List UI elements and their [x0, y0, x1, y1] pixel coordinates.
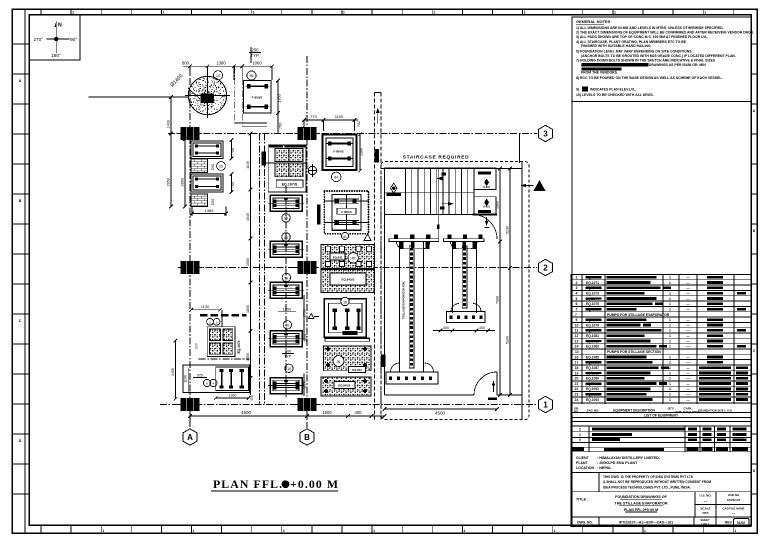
svg-text:1360: 1360: [229, 394, 237, 398]
svg-text:REV.: REV.: [725, 521, 733, 525]
dim 1350 right of F-1: [277, 81, 279, 114]
svg-text:& SHALL NOT BE REPRODUCED WITH: & SHALL NOT BE REPRODUCED WITHOUT WRITTE…: [603, 480, 711, 484]
svg-text:THE STILLAGE EVAPORATOR: THE STILLAGE EVAPORATOR: [614, 502, 667, 506]
svg-text:PUMPS FOR STILLAGE EVAPORATOR: PUMPS FOR STILLAGE EVAPORATOR: [607, 313, 670, 317]
room dim 1900 5230: [499, 169, 501, 396]
equipment table footer header row: [571, 403, 751, 405]
svg-text:1: 1: [669, 318, 671, 322]
svg-text:: HIMALAYAN DISTILLERY LIMITED: : HIMALAYAN DISTILLERY LIMITED.: [597, 456, 660, 460]
V1 base: [386, 372, 438, 384]
svg-text:EQ.1079: EQ.1079: [586, 323, 599, 327]
svg-text:+0.00 M: +0.00 M: [290, 477, 339, 491]
svg-text:1: 1: [669, 377, 671, 381]
svg-text:1: 1: [669, 345, 671, 349]
svg-text:CLIENT: CLIENT: [576, 456, 590, 460]
revision table: [571, 417, 751, 452]
brick pad D52 upper: [191, 159, 208, 173]
svg-text:7: 7: [575, 313, 577, 317]
flow arrow up: [377, 108, 379, 124]
svg-text:1: 1: [734, 529, 736, 533]
stair left landing: [385, 168, 406, 215]
tag bubble 96: [247, 71, 256, 80]
svg-text:1: 1: [543, 400, 548, 409]
upper pipe rack heavy dashed label: [200, 314, 246, 316]
svg-text:1: 1: [669, 355, 671, 359]
svg-text:17: 17: [575, 361, 579, 365]
svg-text:1: 1: [463, 529, 465, 533]
dim 750 right of LA-1: [231, 140, 233, 159]
stair mid landing line: [385, 192, 475, 194]
grid bubble A: [183, 429, 197, 445]
svg-text:D52: D52: [211, 199, 215, 205]
svg-text:IPT/23/107—A1—EVP—CAD—101: IPT/23/107—A1—EVP—CAD—101: [619, 520, 673, 524]
svg-text:20: 20: [286, 324, 290, 328]
svg-text:CAPA.: CAPA.: [683, 407, 692, 411]
trench label box lower: [381, 355, 385, 368]
svg-text:29: 29: [219, 165, 223, 169]
svg-text:NTS: NTS: [703, 511, 709, 515]
svg-text:EQ.1085: EQ.1085: [586, 355, 599, 359]
door bottom-right swing: [474, 372, 497, 395]
svg-text:1: 1: [253, 11, 255, 15]
svg-text:84: 84: [334, 176, 338, 180]
svg-text:1: 1: [669, 398, 671, 402]
svg-text:07/23/107: 07/23/107: [727, 498, 741, 502]
stair right box S2: [474, 197, 496, 215]
svg-text:1: 1: [343, 11, 345, 15]
pump column centerline: [285, 186, 287, 398]
svg-text:3: 3: [576, 286, 578, 290]
svg-text:: NEPAL: : NEPAL: [597, 466, 612, 470]
dim 1360: [216, 397, 249, 399]
svg-text:1: 1: [102, 529, 104, 533]
top dimension line: [183, 65, 272, 67]
svg-text:1: 1: [669, 393, 671, 397]
tag bubble 99: [282, 233, 290, 241]
svg-text:INDICATES PLAN ELEV.LVL.: INDICATES PLAN ELEV.LVL.: [590, 88, 636, 92]
svg-text:22: 22: [575, 387, 579, 391]
client box: [571, 452, 751, 473]
svg-text:EQ.844: EQ.844: [352, 368, 362, 372]
svg-text:180°: 180°: [51, 53, 61, 59]
tank extra stipple: [189, 78, 226, 112]
svg-text:2: 2: [576, 281, 578, 285]
room dashed boundary: [381, 162, 529, 420]
svg-text:1: 1: [524, 11, 526, 15]
svg-text:95: 95: [284, 217, 288, 221]
grid line 3: [168, 133, 537, 135]
svg-text:400: 400: [355, 410, 363, 415]
svg-text:16: 16: [575, 355, 579, 359]
foundation R2 scalloped: [324, 191, 368, 234]
svg-text:FINISHED WITH SUITABLE HAND RA: FINISHED WITH SUITABLE HAND RAILING.: [581, 44, 652, 48]
svg-text:5230: 5230: [506, 226, 510, 234]
svg-text:1: 1: [704, 11, 706, 15]
door top-right swing: [473, 215, 498, 240]
warning triangle right of room: [534, 180, 546, 191]
grid bubble B: [300, 429, 314, 445]
svg-text:2) THE EXACT DIMENSIONS OF EQU: 2) THE EXACT DIMENSIONS OF EQUIPMENT WIL…: [576, 31, 754, 35]
svg-text:9): 9): [576, 88, 579, 92]
svg-text:702: 702: [357, 121, 361, 127]
svg-text:6: 6: [576, 302, 578, 306]
svg-text:01/02: 01/02: [737, 521, 745, 525]
stair treads: [411, 168, 413, 215]
svg-text:3) ALL PADS SHOWN ARE TOP OF C: 3) ALL PADS SHOWN ARE TOP OF CONC.M.S. 1…: [576, 35, 708, 39]
tag bubble 18: [341, 297, 349, 305]
svg-text:B: B: [19, 199, 22, 203]
svg-text:(ANCHOR BOLTS TO BE GROUTED WI: (ANCHOR BOLTS TO BE GROUTED WITH M25 GRA…: [581, 54, 736, 58]
column marker A2: [181, 261, 200, 274]
foundation R5 thick: [324, 299, 366, 338]
svg-text:2710: 2710: [303, 309, 307, 317]
svg-text:24: 24: [575, 398, 579, 402]
pipe path from top: [234, 66, 236, 123]
svg-text:: 200KLPD ENA PLANT: : 200KLPD ENA PLANT: [597, 461, 638, 465]
svg-text:GENERAL NOTES: GENERAL NOTES: [576, 19, 611, 24]
border ruler ticks bottom: [40, 525, 42, 533]
svg-text:1600: 1600: [322, 410, 332, 415]
stair arrows: [437, 177, 444, 179]
stair right box S1: [474, 168, 496, 190]
svg-text:EQ.107/S: EQ.107/S: [282, 183, 298, 187]
svg-text:EQ.1091: EQ.1091: [586, 387, 599, 391]
svg-text:1: 1: [669, 297, 671, 301]
svg-text:EQUIPMENT DESCRIPTION: EQUIPMENT DESCRIPTION: [613, 409, 655, 413]
warning triangle left of R5: [309, 314, 314, 319]
label bar left of R2: [317, 205, 321, 225]
svg-text:270°: 270°: [34, 37, 44, 42]
svg-text:1: 1: [669, 307, 671, 311]
dim 750 right of LA-2: [231, 174, 233, 192]
svg-text:U.S. NO.: U.S. NO.: [699, 493, 711, 497]
tag bubble 20: [283, 321, 291, 329]
svg-text:1: 1: [193, 529, 195, 533]
svg-text:2860: 2860: [181, 178, 185, 186]
svg-text:750: 750: [231, 148, 235, 154]
lower-left foundation outer: [183, 365, 250, 393]
svg-text:10: 10: [287, 367, 291, 371]
door arrow top: [486, 217, 488, 226]
warning triangle near R2: [364, 234, 371, 241]
svg-text:1: 1: [162, 11, 164, 15]
svg-text:1: 1: [373, 529, 375, 533]
foundation F-1 bolts: [247, 84, 250, 88]
svg-text:1380: 1380: [216, 61, 226, 66]
svg-text:800: 800: [182, 61, 190, 66]
svg-text:EQ.1073: EQ.1073: [586, 291, 599, 295]
svg-text:1: 1: [554, 529, 556, 533]
dim line 770 1100: [304, 119, 358, 121]
svg-text:SCALE: SCALE: [700, 506, 710, 510]
svg-text:1130: 1130: [201, 304, 210, 309]
svg-text:FOUNDATION SIZE L X B: FOUNDATION SIZE L X B: [698, 409, 731, 413]
svg-text:EQ.1071: EQ.1071: [586, 281, 599, 285]
column marker A3: [181, 127, 200, 140]
equipment EQ stippled R3: [321, 245, 375, 269]
dim 2950: [170, 134, 172, 207]
svg-text:1100: 1100: [335, 114, 344, 119]
grid line 1: [160, 404, 537, 406]
svg-text:IDEA PROCESS TECHNOLOGIES PVT.: IDEA PROCESS TECHNOLOGIES PVT. LTD., PUN…: [603, 486, 691, 490]
svg-text:2: 2: [543, 263, 548, 272]
title box: [571, 492, 751, 517]
svg-text:550: 550: [250, 395, 254, 401]
svg-text:A: A: [19, 79, 22, 83]
evaporator foundation V1 top cap: [389, 239, 439, 242]
svg-text:FOUNDATION DRAWINGS OF: FOUNDATION DRAWINGS OF: [615, 495, 668, 499]
trench label box upper: [262, 152, 267, 166]
tank black pad: [201, 94, 215, 104]
svg-text:19: 19: [575, 371, 579, 375]
svg-text:4: 4: [576, 291, 578, 295]
svg-text:1: 1: [669, 366, 671, 370]
svg-text:PUMPS FOR STILLAGE SECTION: PUMPS FOR STILLAGE SECTION: [607, 350, 661, 354]
pump foundation P3: [270, 282, 302, 298]
foundation LA-2: [191, 174, 223, 192]
svg-text:91: 91: [285, 276, 289, 280]
svg-text:PLAN FFL.0+0.00 M: PLAN FFL.0+0.00 M: [624, 508, 658, 512]
svg-text:EQ.1075: EQ.1075: [586, 302, 599, 306]
svg-text:1100: 1100: [184, 375, 188, 383]
svg-text:D: D: [19, 439, 22, 443]
svg-text:(SIZE IN Kg/LITRES): (SIZE IN Kg/LITRES): [676, 410, 701, 414]
tag bubble below R2: [341, 232, 348, 239]
svg-text:STILLAGE EVAPORATOR FDN.: STILLAGE EVAPORATOR FDN.: [402, 281, 406, 319]
svg-text:1400: 1400: [246, 353, 250, 361]
room wall left: [384, 169, 386, 396]
tag bubble 91: [282, 273, 290, 281]
svg-text:3: 3: [543, 129, 548, 138]
tag bubble 29: [217, 162, 226, 171]
svg-text:400: 400: [479, 326, 485, 330]
grid bubble 3: [538, 125, 552, 141]
svg-text:10) LEVELS TO BE CHECKED WITH: 10) LEVELS TO BE CHECKED WITH ALL DRGS.: [576, 93, 654, 97]
equipment list table frame: [571, 275, 751, 418]
sheet binding line: [24, 9, 26, 533]
svg-text:1: 1: [433, 11, 435, 15]
svg-text:200: 200: [285, 350, 291, 354]
svg-text:JOB NO: JOB NO: [728, 493, 740, 497]
property note box: [571, 472, 751, 491]
svg-text:1380: 1380: [360, 148, 364, 156]
svg-text:LOCATION: LOCATION: [576, 466, 594, 470]
svg-text:F-805/S: F-805/S: [341, 210, 351, 214]
general notes box: [572, 17, 751, 102]
svg-text:1: 1: [579, 433, 581, 437]
svg-text:1500: 1500: [246, 258, 250, 266]
svg-text:1: 1: [669, 339, 671, 343]
svg-text:1: 1: [614, 11, 616, 15]
svg-text:EQ.842: EQ.842: [333, 255, 343, 259]
border ruler ticks top: [40, 9, 42, 15]
svg-text:1: 1: [669, 334, 671, 338]
svg-text:4500: 4500: [435, 411, 446, 416]
svg-text:EQ.845/S: EQ.845/S: [338, 384, 350, 388]
svg-text:EQ.843/S: EQ.843/S: [341, 278, 354, 282]
dim 1400 left: [170, 97, 172, 134]
trench line right: [264, 134, 266, 405]
grid line A: [189, 66, 191, 428]
svg-text:12: 12: [575, 334, 579, 338]
foundation F-1 outline: [244, 81, 271, 114]
svg-text:0: 0: [579, 438, 581, 442]
svg-text:1200: 1200: [283, 308, 291, 312]
equipment stippled R7: [321, 377, 371, 396]
svg-text:F-804/S: F-804/S: [333, 150, 343, 154]
svg-text:1) ALL DIMENSIONS ARE IN MM AN: 1) ALL DIMENSIONS ARE IN MM AND LEVELS I…: [576, 26, 724, 30]
tag bubble 14: [213, 71, 222, 80]
V1 center hatch: [409, 246, 414, 368]
svg-text:S-801: S-801: [483, 205, 490, 209]
svg-text:18: 18: [575, 366, 579, 370]
svg-text:925: 925: [197, 373, 203, 377]
svg-text:FROM THE VENDORS.: FROM THE VENDORS.: [581, 70, 618, 74]
svg-text:TYP.: TYP.: [284, 355, 292, 359]
svg-text:90°: 90°: [70, 37, 77, 43]
dim 1100 rotated: [187, 368, 189, 394]
trench label box: [375, 149, 380, 163]
svg-text:LIST OF EQUIPMENT: LIST OF EQUIPMENT: [644, 413, 679, 417]
room walls top: [382, 168, 523, 170]
svg-text:A: A: [187, 433, 193, 442]
tag bubble 10: [285, 364, 293, 372]
svg-text:1: 1: [669, 302, 671, 306]
svg-text:1060: 1060: [252, 61, 262, 66]
foundation R1 thick: [323, 135, 357, 171]
svg-text:14: 14: [575, 345, 579, 349]
svg-text:250: 250: [252, 48, 260, 53]
leader line from 1130: [221, 310, 223, 327]
svg-text:4500: 4500: [241, 410, 252, 415]
door arrow bottom: [493, 381, 495, 392]
svg-text:770: 770: [310, 114, 317, 119]
V1 body: [399, 242, 401, 373]
svg-text:96: 96: [250, 74, 254, 78]
V2 dims 400 400: [433, 330, 495, 332]
equipment table column lines: [581, 275, 583, 404]
room wall bottom: [385, 394, 475, 396]
svg-text:14: 14: [216, 74, 220, 78]
svg-text:D52: D52: [211, 164, 215, 170]
svg-text:1: 1: [669, 281, 671, 285]
svg-text:5) FOUNDATION LEVEL MAY VARY D: 5) FOUNDATION LEVEL MAY VARY DEPENDING O…: [576, 49, 693, 53]
grid line B: [306, 56, 308, 428]
svg-text:750: 750: [279, 123, 283, 129]
svg-text:1400: 1400: [167, 120, 171, 128]
svg-text:2950: 2950: [167, 178, 171, 186]
svg-text:21: 21: [575, 382, 579, 386]
svg-text:10: 10: [575, 323, 579, 327]
svg-text:STAIRCASE REQUIRED: STAIRCASE REQUIRED: [403, 155, 470, 161]
vertical dim chain x250: [250, 134, 252, 396]
grid bubble 2: [538, 259, 552, 275]
svg-text:EQ.1081: EQ.1081: [586, 334, 599, 338]
svg-text:7) HOLDING DOWN BOLTS SHOWN IN: 7) HOLDING DOWN BOLTS SHOWN IN THE SKETC…: [576, 58, 716, 62]
list of equipment bar: [571, 412, 751, 414]
svg-text:1800: 1800: [246, 305, 250, 313]
svg-text:1: 1: [669, 361, 671, 365]
bottom dimension line: [190, 415, 385, 417]
tag bubble 95: [282, 214, 290, 222]
svg-text:1: 1: [576, 276, 578, 280]
svg-text:1: 1: [283, 529, 285, 533]
pump foundation P5: [270, 378, 302, 394]
tag bubbles pair lower: [203, 379, 210, 386]
grid line 2: [182, 267, 537, 269]
foundation LA-1: [191, 141, 223, 159]
pump foundation P4: [270, 331, 302, 347]
svg-text:TAG NO.: TAG NO.: [587, 409, 600, 413]
north arrow box: [29, 15, 80, 61]
lower-left inner rect: [216, 367, 249, 390]
svg-text:1: 1: [669, 371, 671, 375]
svg-text:EQ.1083: EQ.1083: [586, 345, 599, 349]
equipment stippled R6: [324, 346, 371, 371]
pump foundation P1: [270, 195, 302, 211]
svg-text:1: 1: [669, 329, 671, 333]
svg-text:TYP.: TYP.: [251, 53, 260, 58]
svg-text:1: 1: [72, 11, 74, 15]
staircase outline: [406, 168, 475, 215]
column marker A1: [181, 398, 200, 411]
svg-text:1: 1: [669, 286, 671, 290]
svg-text:18: 18: [343, 300, 347, 304]
dwg number row: [571, 517, 751, 527]
centerline between groups: [199, 358, 250, 360]
stair bottom line: [385, 214, 473, 216]
equipment table rows: [571, 279, 751, 281]
V2 body: [452, 242, 454, 314]
svg-text:61: 61: [343, 235, 347, 239]
eq group 2x2 quadrant block: [207, 327, 235, 357]
svg-text:36: 36: [337, 360, 341, 364]
column marker B1: [298, 398, 317, 411]
svg-text:C: C: [19, 319, 22, 323]
svg-text:9: 9: [576, 318, 578, 322]
svg-text:N: N: [58, 23, 62, 29]
north arrow cross: [47, 38, 70, 40]
svg-text:EQ.1087: EQ.1087: [586, 366, 599, 370]
R5 base bar: [325, 337, 370, 339]
svg-text:S-801: S-801: [483, 185, 490, 189]
svg-text:B: B: [304, 433, 310, 442]
svg-text:14: 14: [575, 350, 579, 354]
border ruler ticks left: [12, 43, 29, 45]
evaporator foundation V2 top cap: [443, 239, 484, 242]
svg-text:EQ.1089: EQ.1089: [586, 377, 599, 381]
room wall right: [521, 162, 523, 420]
V2 base: [447, 312, 486, 323]
svg-text:7: 7: [576, 307, 578, 311]
svg-text:QTY.: QTY.: [668, 407, 675, 411]
svg-text:1: 1: [669, 387, 671, 391]
svg-text:13: 13: [575, 339, 579, 343]
equipment EQ.107/S stippled: [268, 145, 306, 192]
dim 2860: [184, 139, 186, 207]
svg-text:99: 99: [284, 236, 288, 240]
svg-text:7000: 7000: [496, 296, 500, 304]
column marker B2: [298, 261, 317, 274]
svg-text:1270: 1270: [303, 381, 307, 389]
trench twin dashed vertical: [374, 93, 376, 420]
svg-text:5200: 5200: [506, 336, 510, 344]
svg-text:TITLE :: TITLE :: [576, 498, 588, 502]
svg-text:1350: 1350: [277, 93, 282, 103]
svg-text:CAD FILE NAME: CAD FILE NAME: [723, 506, 745, 510]
svg-text:1: 1: [669, 291, 671, 295]
room bottom dim line: [385, 408, 498, 410]
